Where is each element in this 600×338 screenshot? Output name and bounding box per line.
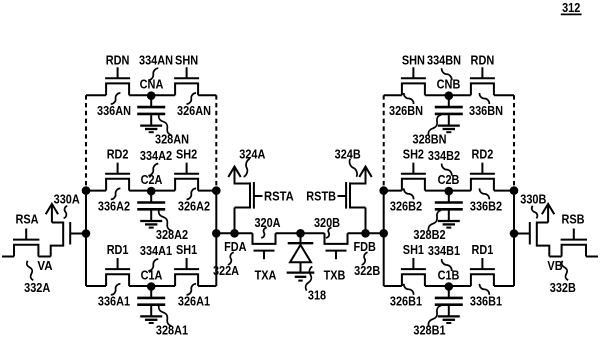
label 326B2 (390, 198, 422, 213)
wire right bus block A (215, 191, 217, 286)
label 332A (24, 280, 51, 295)
capacitor 328B2 (435, 191, 463, 228)
wire row N block B segment 2 (425, 94, 449, 96)
label 330B (520, 192, 546, 207)
power supply arrow 330A drain (46, 204, 58, 223)
label VB (547, 258, 562, 273)
svg-text:326A1: 326A1 (178, 294, 210, 309)
wire row N block A segment 1 (86, 94, 106, 96)
label 318 (308, 288, 326, 303)
transistor 326A2 (gate SH2) (174, 163, 199, 191)
leader squiggle 326A2 (187, 188, 197, 199)
wire row N block B segment 4 (494, 94, 514, 96)
label 336A1 (98, 294, 130, 309)
label 334A1 (140, 243, 172, 258)
wire row 2 block A segment 4 (198, 190, 216, 192)
svg-text:SH1: SH1 (176, 242, 197, 257)
svg-text:336AN: 336AN (97, 103, 131, 118)
wire VB output line segment 1 (586, 256, 598, 258)
label 328B1 (413, 323, 445, 338)
leader squiggle 328A2 (159, 210, 172, 231)
transistor 330B (source follower) (530, 222, 550, 257)
svg-text:334A1: 334A1 (140, 243, 172, 258)
label SHN (175, 52, 198, 67)
junction dot 330B gate tap (510, 229, 519, 238)
svg-text:320A: 320A (254, 215, 281, 230)
leader squiggle 334BN (442, 68, 452, 80)
power supply arrow 324B (359, 167, 371, 185)
node CNA (147, 91, 156, 100)
wire row 1 block B segment 2 (425, 285, 449, 287)
leader squiggle 336BN (480, 93, 490, 104)
svg-text:312: 312 (562, 0, 580, 15)
leader squiggle 320B (326, 228, 332, 238)
transistor RSA (row select 332A) (13, 229, 39, 257)
label RSTA (264, 189, 294, 204)
svg-text:CNB: CNB (437, 77, 461, 92)
junction dot bus FDB tap (379, 229, 388, 238)
transistor 336A2 (gate RD2) (105, 163, 130, 191)
svg-text:336A2: 336A2 (98, 198, 130, 213)
svg-text:C2B: C2B (438, 172, 460, 187)
wire row 1 block A segment 2 (129, 285, 151, 287)
leader squiggle 336B1 (480, 284, 490, 295)
label RDN (471, 52, 495, 67)
leader squiggle 336A1 (111, 284, 121, 295)
svg-text:322B: 322B (354, 263, 380, 278)
svg-text:TXB: TXB (324, 268, 346, 283)
svg-text:326B1: 326B1 (390, 294, 422, 309)
svg-text:328A1: 328A1 (156, 323, 188, 338)
leader squiggle 328B2 (428, 210, 441, 231)
transistor 330A (source follower) (51, 222, 70, 257)
transistor TXB (transfer gate) (325, 233, 348, 259)
label CNA (140, 77, 164, 92)
capacitor 328BN (435, 95, 463, 132)
transistor 326B1 (gate SH1) (401, 258, 426, 286)
wire FDB to reset transistor (365, 208, 367, 234)
wire VA output line segment 2 (38, 256, 50, 258)
node C2A (147, 187, 156, 196)
node C1B (445, 282, 454, 291)
svg-text:RD2: RD2 (107, 147, 129, 162)
junction dot bus row2 right A (212, 186, 221, 195)
label 336A2 (98, 198, 130, 213)
leader squiggle 324B (350, 159, 358, 177)
label 332B (550, 280, 576, 295)
label TXB (324, 268, 346, 283)
wire row N block B segment 3 (449, 94, 471, 96)
svg-text:SH1: SH1 (403, 242, 424, 257)
leader squiggle 336A2 (111, 188, 121, 199)
label RD2 (107, 147, 129, 162)
label 322B (354, 263, 380, 278)
leader squiggle 334B1 (442, 259, 452, 271)
leader squiggle 326B2 (404, 188, 414, 199)
svg-text:VB: VB (547, 258, 562, 273)
label C2B (438, 172, 460, 187)
svg-text:334BN: 334BN (427, 52, 461, 67)
wire FDA to transfer gate (235, 232, 253, 234)
dashed continuation left bus block A (85, 95, 87, 190)
label 326B1 (390, 294, 422, 309)
label SH1 (403, 242, 424, 257)
leader squiggle 334AN (148, 68, 158, 80)
wire FDA to sampling bus (216, 232, 234, 234)
label RSB (561, 212, 584, 227)
label FDA (224, 239, 247, 254)
wire row 2 block B segment 1 (384, 190, 402, 192)
leader squiggle 334B2 (442, 164, 452, 176)
svg-text:TXA: TXA (255, 268, 277, 283)
wire right bus block B (383, 191, 385, 286)
svg-text:334A2: 334A2 (140, 148, 172, 163)
svg-text:RSB: RSB (561, 212, 584, 227)
label 328AN (155, 132, 189, 147)
label 320B (314, 215, 340, 230)
label SH2 (403, 147, 424, 162)
label 334B1 (428, 243, 460, 258)
label 336AN (97, 103, 131, 118)
label C1B (438, 268, 460, 283)
leader squiggle 336AN (111, 93, 121, 104)
wire FDB to sampling bus (366, 232, 384, 234)
wire row 2 block A segment 3 (151, 190, 175, 192)
label 320A (254, 215, 281, 230)
wire row N block B segment 1 (384, 94, 402, 96)
label SH2 (176, 147, 197, 162)
wire row N block A segment 2 (129, 94, 151, 96)
transistor 326BN (gate SHN) (401, 67, 426, 95)
transistor RSTB (reset) (338, 176, 366, 209)
svg-text:322A: 322A (213, 263, 240, 278)
label C2A (141, 172, 163, 187)
leader squiggle 322B (362, 252, 368, 264)
label CNB (437, 77, 461, 92)
label 324B (335, 147, 361, 162)
junction dot bus FDA tap (212, 229, 221, 238)
svg-text:RD1: RD1 (472, 242, 494, 257)
wire row N block A segment 3 (151, 94, 175, 96)
node CNB (445, 91, 454, 100)
svg-text:VA: VA (37, 258, 53, 273)
transistor 336BN (gate RDN) (470, 67, 495, 95)
wire gate 330A (71, 233, 86, 235)
transistor 336B1 (gate RD1) (470, 258, 495, 286)
wire left bus block A (85, 191, 87, 286)
junction dot bus row2 right B (379, 186, 388, 195)
label RD1 (472, 242, 494, 257)
leader squiggle 328AN (159, 115, 172, 136)
svg-text:334AN: 334AN (139, 52, 173, 67)
node C1A (147, 282, 156, 291)
svg-text:330A: 330A (54, 192, 81, 207)
transistor 326A1 (gate SH1) (174, 258, 199, 286)
leader squiggle 326B1 (404, 284, 414, 295)
label 336B1 (470, 294, 502, 309)
svg-text:SHN: SHN (175, 52, 198, 67)
svg-text:RSTB: RSTB (306, 189, 336, 204)
leader squiggle 330A (64, 206, 68, 219)
svg-text:324B: 324B (335, 147, 361, 162)
svg-text:336BN: 336BN (469, 103, 503, 118)
wire VA output line segment 1 (2, 256, 14, 258)
svg-text:328B1: 328B1 (413, 323, 445, 338)
leader squiggle 326BN (404, 93, 414, 104)
label RSA (15, 212, 39, 227)
dashed continuation right bus block B (383, 95, 385, 190)
capacitor 328A1 (137, 286, 165, 323)
svg-text:332B: 332B (550, 280, 576, 295)
svg-text:SH2: SH2 (176, 147, 197, 162)
wire row 2 block A segment 1 (86, 190, 106, 192)
svg-text:330B: 330B (520, 192, 546, 207)
leader squiggle 328BN (428, 115, 441, 136)
leader squiggle 324A (244, 159, 250, 177)
dashed continuation left bus block B (513, 95, 515, 190)
label 334BN (427, 52, 461, 67)
label 328A1 (156, 323, 188, 338)
node FDA (230, 229, 239, 238)
svg-text:RSA: RSA (15, 212, 39, 227)
leader squiggle 330B (532, 206, 538, 219)
transistor TXA (transfer gate) (253, 233, 276, 259)
svg-text:RSTA: RSTA (264, 189, 294, 204)
label 322A (213, 263, 240, 278)
label 326A1 (178, 294, 210, 309)
svg-text:320B: 320B (314, 215, 340, 230)
svg-text:RDN: RDN (106, 52, 130, 67)
wire left bus block B (513, 191, 515, 286)
label FDB (354, 239, 376, 254)
svg-text:328B2: 328B2 (413, 227, 445, 242)
svg-text:328A2: 328A2 (156, 227, 188, 242)
svg-text:328AN: 328AN (155, 132, 189, 147)
svg-text:SH2: SH2 (403, 147, 424, 162)
wire row 2 block B segment 2 (425, 190, 449, 192)
label 326BN (389, 103, 423, 118)
label 336B2 (470, 198, 502, 213)
leader squiggle 318 (306, 266, 313, 290)
label RD1 (107, 242, 129, 257)
wire gate 330B (514, 233, 529, 235)
label 334A2 (140, 148, 172, 163)
label 334B2 (428, 148, 460, 163)
leader squiggle 334A1 (148, 259, 158, 271)
leader squiggle 328A1 (159, 306, 172, 327)
transistor 326B2 (gate SH2) (401, 163, 426, 191)
wire row 2 block B segment 4 (494, 190, 514, 192)
label TXA (255, 268, 277, 283)
ground photodiode (287, 273, 315, 281)
wire row 1 block A segment 1 (86, 285, 106, 287)
power supply arrow 330B drain (542, 204, 554, 223)
wire row 1 block A segment 3 (151, 285, 175, 287)
capacitor 328B1 (435, 286, 463, 323)
wire row 2 block B segment 3 (449, 190, 471, 192)
junction dot bus row2 left B (510, 186, 519, 195)
wire row 2 block A segment 2 (129, 190, 151, 192)
wire row 1 block B segment 4 (494, 285, 514, 287)
capacitor 328AN (137, 95, 165, 132)
wire row 1 block A segment 4 (198, 285, 216, 287)
label 328BN (413, 132, 447, 147)
transistor 336B2 (gate RD2) (470, 163, 495, 191)
svg-text:FDB: FDB (354, 239, 376, 254)
svg-text:326AN: 326AN (177, 103, 211, 118)
transistor 326AN (gate SHN) (174, 67, 199, 95)
power supply arrow 324A (228, 167, 240, 185)
label 328B2 (413, 227, 445, 242)
junction dot bus row2 left A (82, 186, 91, 195)
label 324A (239, 147, 266, 162)
node FDB (361, 229, 370, 238)
wire transfer gate to photodiode (276, 232, 301, 234)
label 334AN (139, 52, 173, 67)
svg-text:326A2: 326A2 (178, 198, 210, 213)
node C2B (445, 187, 454, 196)
svg-text:334B1: 334B1 (428, 243, 460, 258)
label VA (37, 258, 53, 273)
svg-text:332A: 332A (24, 280, 51, 295)
label 336BN (469, 103, 503, 118)
label C1A (141, 268, 163, 283)
junction dot 330A gate tap (82, 229, 91, 238)
capacitor 328A2 (137, 191, 165, 228)
leader squiggle 326AN (187, 93, 197, 104)
svg-text:C1B: C1B (438, 268, 460, 283)
svg-text:SHN: SHN (402, 52, 425, 67)
wire row 1 block B segment 1 (384, 285, 402, 287)
label 328A2 (156, 227, 188, 242)
label RDN (106, 52, 130, 67)
svg-text:324A: 324A (239, 147, 266, 162)
leader squiggle 322A (228, 252, 234, 264)
svg-text:FDA: FDA (224, 239, 247, 254)
svg-text:318: 318 (308, 288, 326, 303)
label RSTB (306, 189, 336, 204)
svg-text:336B2: 336B2 (470, 198, 502, 213)
transistor 336AN (gate RDN) (105, 67, 130, 95)
wire FDA to reset transistor (234, 208, 236, 234)
leader squiggle 328B1 (428, 306, 441, 327)
dashed continuation right bus block A (215, 95, 217, 190)
label SHN (402, 52, 425, 67)
leader squiggle 334A2 (148, 164, 158, 176)
photodiode anode node (296, 229, 305, 238)
svg-text:336A1: 336A1 (98, 294, 130, 309)
photodiode 318 (288, 233, 314, 272)
svg-text:336B1: 336B1 (470, 294, 502, 309)
wire row 1 block B segment 3 (449, 285, 471, 287)
label 326A2 (178, 198, 210, 213)
leader squiggle 332A (27, 261, 34, 281)
figure reference 312 (561, 0, 582, 15)
transistor RSTA (reset) (235, 176, 263, 209)
transistor 336A1 (gate RD1) (105, 258, 130, 286)
wire FDB to transfer gate (348, 232, 366, 234)
label 330A (54, 192, 81, 207)
svg-text:328BN: 328BN (413, 132, 447, 147)
leader squiggle 326A1 (187, 284, 197, 295)
wire transfer gate to photodiode (300, 232, 325, 234)
svg-text:RDN: RDN (471, 52, 495, 67)
svg-text:RD2: RD2 (472, 147, 494, 162)
label RD2 (472, 147, 494, 162)
wire VB output line segment 2 (549, 256, 561, 258)
transistor RSB (row select 332B) (561, 229, 587, 257)
svg-text:334B2: 334B2 (428, 148, 460, 163)
label SH1 (176, 242, 197, 257)
svg-text:326B2: 326B2 (390, 198, 422, 213)
label 326AN (177, 103, 211, 118)
svg-text:RD1: RD1 (107, 242, 129, 257)
svg-text:326BN: 326BN (389, 103, 423, 118)
leader squiggle 320A (261, 228, 267, 238)
wire row N block A segment 4 (198, 94, 216, 96)
leader squiggle 336B2 (480, 188, 490, 199)
leader squiggle 332B (562, 261, 569, 281)
